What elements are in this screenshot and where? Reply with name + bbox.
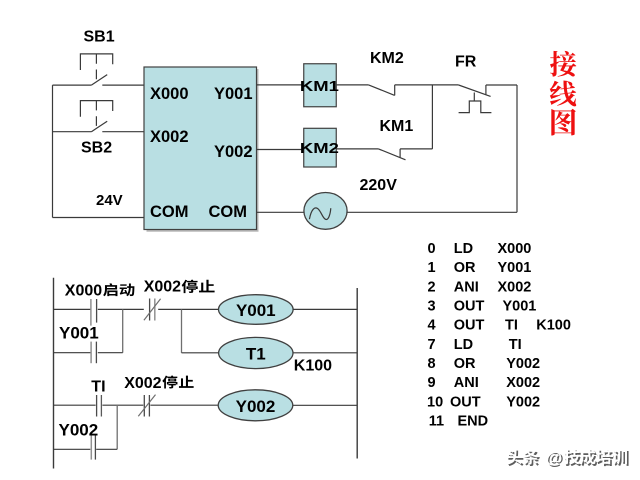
- svg-text:X000: X000: [498, 241, 532, 257]
- svg-text:11: 11: [429, 414, 444, 430]
- PLC box shadow: [147, 69, 259, 231]
- wire: right vertical down to 220V line: [516, 85, 518, 212]
- red title 接: [550, 51, 576, 77]
- thermal relay contact FR: [459, 85, 492, 113]
- svg-text:X002: X002: [144, 279, 181, 296]
- svg-text:1: 1: [428, 260, 436, 276]
- svg-text:ANI: ANI: [454, 279, 479, 295]
- svg-text:KM2: KM2: [300, 140, 339, 157]
- svg-text:FR: FR: [455, 53, 477, 70]
- ladder left power rail: [53, 278, 55, 469]
- svg-text:K100: K100: [294, 358, 332, 375]
- wire: COM bottom wire: [53, 217, 145, 219]
- svg-text:Y001: Y001: [236, 301, 276, 320]
- wire: junction drop to KM1 interlock row: [431, 85, 433, 149]
- NC contact X002 (rung2): [144, 395, 149, 417]
- wire: KM2 contact to FR junction: [395, 84, 459, 86]
- svg-text:END: END: [458, 414, 489, 430]
- coil Y002: [218, 390, 293, 421]
- wire: Y002 output to KM2 coil: [257, 149, 304, 151]
- svg-text:K100: K100: [536, 318, 571, 334]
- svg-text:KM1: KM1: [380, 118, 414, 135]
- Y002 seal-in branch wire: [54, 448, 118, 450]
- svg-text:COM: COM: [150, 203, 189, 221]
- NO contact Y002: [90, 435, 92, 459]
- svg-text:ANI: ANI: [454, 375, 479, 391]
- pushbutton SB1 (start, NO contact with actuator): [80, 54, 112, 85]
- branch vertical to T1 coil: [181, 309, 183, 352]
- NO contact X000: [90, 299, 92, 326]
- svg-text:Y001: Y001: [498, 260, 532, 276]
- svg-text:X002: X002: [124, 375, 161, 392]
- svg-text:3: 3: [428, 299, 436, 315]
- branch vertical to Y001 seal-in: [122, 309, 124, 352]
- coil Y001: [219, 295, 294, 325]
- svg-text:Y002: Y002: [506, 356, 540, 372]
- PLC controller box: [144, 67, 257, 230]
- wire: X000 input wire through SB1: [53, 84, 145, 86]
- svg-text:Y001: Y001: [503, 299, 537, 315]
- svg-text:KM2: KM2: [370, 50, 404, 67]
- rung 1 wire segments: [54, 308, 219, 310]
- svg-text:TI: TI: [505, 318, 518, 334]
- red title 线: [550, 81, 576, 107]
- wire: KM1 contact to junction: [400, 148, 432, 150]
- svg-text:2: 2: [428, 279, 436, 295]
- rung 2 wire segments: [54, 404, 219, 406]
- wire: X002 input wire through SB2: [53, 131, 145, 133]
- contactor coil KM1: [304, 64, 337, 107]
- svg-text:@: @: [546, 448, 563, 467]
- svg-text:X002: X002: [150, 128, 189, 146]
- svg-text:SB2: SB2: [81, 139, 112, 156]
- svg-text:OUT: OUT: [454, 318, 485, 334]
- wire: FR to right rail corner: [486, 84, 517, 86]
- svg-text:Y002: Y002: [59, 420, 99, 439]
- svg-text:LD: LD: [454, 241, 473, 257]
- wire: KM2 coil to KM1 interlock contact: [336, 148, 378, 150]
- red title 图: [551, 109, 576, 136]
- NC contact KM1 (interlock): [379, 149, 406, 160]
- svg-text:KM1: KM1: [300, 78, 339, 95]
- svg-text:Y002: Y002: [236, 397, 276, 416]
- T1 branch wire: [182, 352, 219, 354]
- svg-text:COM: COM: [209, 203, 248, 221]
- svg-text:0: 0: [428, 241, 436, 257]
- svg-text:24V: 24V: [96, 192, 123, 209]
- wire T1 coil to right rail: [293, 352, 357, 354]
- wire Y002 coil to right rail: [293, 404, 357, 406]
- NC contact KM2 (interlock): [369, 85, 395, 96]
- svg-text:TI: TI: [509, 337, 522, 353]
- AC source (220V sine): [304, 193, 347, 230]
- svg-text:OUT: OUT: [454, 299, 485, 315]
- wire: KM1 coil to KM2 interlock contact: [336, 84, 368, 86]
- svg-text:X000: X000: [150, 85, 189, 103]
- branch vertical to Y002 seal-in: [116, 405, 118, 449]
- svg-text:OR: OR: [454, 260, 476, 276]
- svg-text:OR: OR: [454, 356, 476, 372]
- svg-text:Y002: Y002: [506, 394, 540, 410]
- svg-text:7: 7: [428, 337, 436, 353]
- wire Y001 coil to right rail: [293, 308, 357, 310]
- svg-text:9: 9: [428, 375, 436, 391]
- svg-text:10: 10: [427, 394, 443, 410]
- watermark 头条@技成培训 shadow layer: [508, 451, 523, 466]
- svg-text:TI: TI: [91, 379, 105, 396]
- wire: COM right to AC source: [257, 211, 305, 213]
- svg-text:X000: X000: [65, 283, 102, 300]
- NO contact Y001: [90, 342, 92, 364]
- contactor coil KM2: [304, 128, 337, 167]
- wire: Y001 output to KM1 coil: [257, 84, 304, 86]
- wire: left rail of wiring diagram: [52, 85, 54, 217]
- svg-text:SB1: SB1: [84, 28, 115, 45]
- coil T1: [219, 337, 293, 368]
- svg-text:T1: T1: [246, 345, 266, 364]
- svg-text:LD: LD: [454, 337, 473, 353]
- ladder right power rail: [356, 288, 358, 459]
- Y001 seal-in branch wire: [54, 352, 123, 354]
- watermark 头条@技成培训 white layer: [507, 449, 522, 464]
- svg-text:220V: 220V: [360, 177, 398, 194]
- NO contact TI: [96, 395, 98, 417]
- svg-text:X002: X002: [506, 375, 540, 391]
- wire: AC source to right rail: [347, 211, 517, 213]
- svg-text:OUT: OUT: [450, 394, 481, 410]
- NC contact X002 (rung1): [149, 299, 151, 321]
- svg-text:8: 8: [428, 356, 436, 372]
- svg-text:X002: X002: [498, 279, 532, 295]
- svg-text:Y001: Y001: [59, 324, 99, 343]
- svg-text:Y002: Y002: [214, 143, 253, 161]
- svg-text:4: 4: [428, 318, 436, 334]
- svg-text:Y001: Y001: [214, 85, 253, 103]
- pushbutton SB2 (stop, contact with actuator): [80, 101, 112, 132]
